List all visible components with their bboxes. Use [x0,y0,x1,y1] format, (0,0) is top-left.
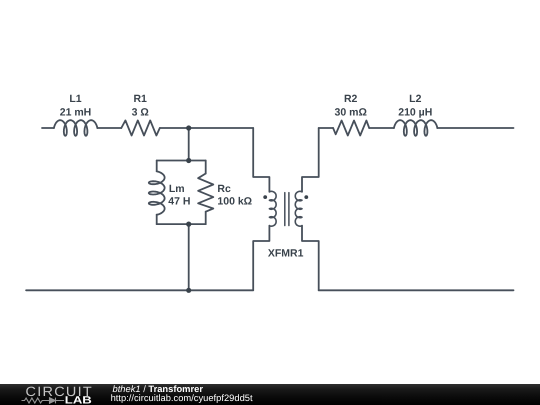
wire primary top lead [253,128,269,192]
svg-text:L2: L2 [409,93,421,105]
label Lm name [169,183,185,195]
svg-text:Lm: Lm [169,183,185,195]
wire L1 to R1 [97,127,121,129]
svg-text:47 H: 47 H [168,195,190,207]
svg-text:210 µH: 210 µH [398,106,432,118]
wire top-right to open end [437,127,513,129]
label Rc name [217,183,231,195]
wire primary bottom lead [253,226,269,291]
label L2 value [398,106,432,118]
wire Rc bottom lead [205,212,207,224]
CircuitLab logo wordmark LAB [65,395,93,405]
transformer XFMR1 core [285,193,289,226]
label Lm value [168,195,190,207]
wire top rail right [319,127,333,129]
inductor L1 coil [54,120,98,136]
label XFMR1 [268,248,304,260]
phase dot primary [263,195,267,199]
label L1 name [69,93,81,105]
svg-text:L1: L1 [69,93,81,105]
svg-text:Rc: Rc [217,183,231,195]
wire Rc top lead [205,161,207,174]
label L1 value [60,106,92,118]
junction node shunt box top [186,158,191,163]
svg-text:R1: R1 [133,93,147,105]
transformer XFMR1 secondary winding [295,191,302,226]
inductor L2 coil [394,120,437,136]
wire shunt box bottom bar [157,223,206,225]
wire R1 to primary corner (through node) [160,127,253,129]
wire secondary bottom lead [302,226,319,291]
svg-text:XFMR1: XFMR1 [268,248,304,260]
resistor R1 zigzag [121,120,160,135]
svg-text:LAB: LAB [65,395,93,405]
svg-text:21 mH: 21 mH [60,106,92,118]
svg-text:100 kΩ: 100 kΩ [217,195,252,207]
footer bar [0,384,540,405]
wire secondary top lead [302,128,319,192]
svg-text:http://circuitlab.com/cyuefpf2: http://circuitlab.com/cyuefpf29dd5t [111,393,253,403]
junction node shunt box bottom [186,222,191,227]
junction node bottom rail [186,288,191,293]
CircuitLab logo schematic squiggle (resistor + diode) [22,398,65,404]
label R2 name [344,93,358,105]
wire shunt to bottom rail [188,224,190,290]
inductor Lm coil [149,171,165,215]
transformer XFMR1 primary winding [269,191,276,226]
label L2 name [409,93,421,105]
footer url text [111,393,253,403]
wire shunt box top bar [157,160,206,162]
CircuitLab logo wordmark CIRCUIT [26,384,94,399]
svg-text:R2: R2 [344,93,358,105]
label R1 value [132,106,149,118]
wire top-left lead [42,127,54,129]
wire Lm bottom lead [156,215,158,224]
wire shunt node down [188,128,190,161]
label R1 name [133,93,147,105]
svg-text:30 mΩ: 30 mΩ [335,106,367,118]
junction node at R1/shunt [186,125,191,130]
resistor Rc zigzag [198,174,213,212]
svg-text:3 Ω: 3 Ω [132,106,149,118]
phase dot secondary [304,195,308,199]
label Rc value [217,195,252,207]
wire bottom rail left [26,289,253,291]
wire Lm top lead [156,161,158,172]
footer title text [113,384,204,394]
resistor R2 zigzag [333,121,369,136]
wire bottom rail right [319,289,514,291]
wire R2 to L2 [369,127,394,129]
label R2 value [335,106,367,118]
